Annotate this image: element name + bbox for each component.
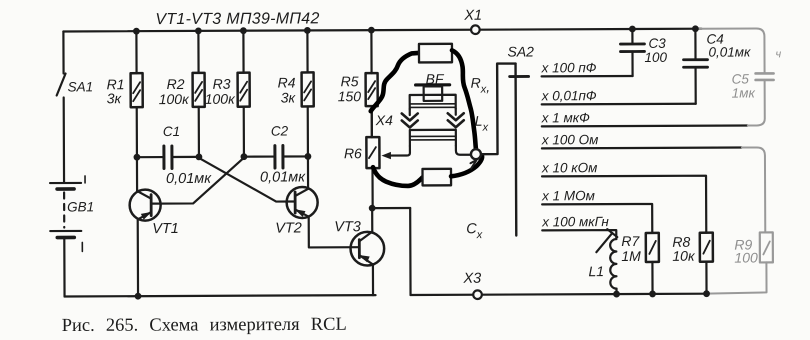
wire bottom right rail [411, 294, 707, 295]
svg-text:Rх,: Rх, [471, 75, 491, 96]
wire bottom left rail [65, 295, 376, 296]
svg-text:х 1 мкФ: х 1 мкФ [541, 110, 590, 125]
svg-text:VT1: VT1 [152, 221, 179, 237]
svg-text:С1: С1 [163, 124, 180, 139]
svg-text:X3: X3 [462, 271, 481, 287]
svg-text:х 0,01пФ: х 0,01пФ [541, 88, 597, 103]
capacitor C3 100 [620, 29, 667, 76]
svg-text:100: 100 [644, 50, 667, 65]
label Cx [466, 221, 483, 241]
wiper arrow into R6 [381, 146, 410, 159]
inductor L1 [588, 229, 617, 294]
wire socket right lead to probe node [456, 146, 471, 155]
probe node circle [471, 149, 481, 159]
svg-text:х 100 Ом: х 100 Ом [541, 132, 599, 147]
svg-text:3к: 3к [281, 89, 297, 105]
wire SA1 to GB1 [63, 97, 66, 182]
labels Rx Lx [471, 75, 491, 134]
resistor R8 10к [672, 233, 713, 294]
wire GB1 to bottom rail [63, 237, 65, 296]
junction dot VT3 collector node [369, 205, 376, 212]
range line x1 мкФ [541, 110, 748, 127]
junction dots bottom rails [135, 290, 710, 299]
svg-text:Рис. 265. Схема измерителя: Рис. 265. Схема измерителя RCL [62, 315, 347, 336]
svg-text:SA2: SA2 [507, 43, 534, 59]
probe cord upper right to node [452, 50, 476, 149]
svg-text:0,01мк: 0,01мк [708, 44, 751, 59]
probe plug 1 [419, 44, 452, 63]
svg-text:С5: С5 [732, 71, 750, 86]
resistor R2 100к [158, 31, 205, 157]
svg-text:R2: R2 [167, 76, 185, 92]
transistor VT2 [275, 156, 359, 247]
svg-text:R7: R7 [621, 233, 640, 249]
svg-text:Cх: Cх [466, 221, 483, 241]
svg-text:X1: X1 [463, 8, 482, 24]
svg-text:1М: 1М [621, 248, 641, 264]
svg-text:х 100 мкГн: х 100 мкГн [541, 214, 609, 229]
wire cross coupling C2 node to VT1 base [151, 158, 244, 204]
wire output column down [409, 208, 412, 295]
wire left column top [62, 31, 64, 73]
svg-text:С2: С2 [271, 124, 289, 139]
terminal X3 [462, 271, 481, 299]
headphone BF body [410, 95, 456, 109]
svg-text:L1: L1 [588, 263, 604, 279]
switch SA2 [481, 43, 535, 235]
svg-text:Lх: Lх [475, 113, 489, 134]
svg-text:ч: ч [775, 48, 781, 60]
wire grey right side to R9 [742, 147, 765, 232]
probe cord upper (Rx) [370, 53, 418, 111]
svg-text:VT1-VT3 МП39-МП42: VT1-VT3 МП39-МП42 [155, 10, 319, 28]
capacitor C2 0,01мк [244, 123, 308, 185]
transistor VT3 [334, 208, 384, 295]
svg-text:R3: R3 [213, 76, 231, 92]
resistor R7 1М [621, 233, 659, 294]
resistor R1 3к [106, 31, 143, 157]
svg-text:R5: R5 [341, 73, 359, 89]
svg-text:С3: С3 [648, 36, 666, 51]
probe cord lower right to node [451, 156, 482, 177]
range line x100 Ом [541, 132, 742, 149]
svg-text:1мк: 1мк [732, 85, 756, 100]
svg-text:10к: 10к [672, 248, 696, 264]
svg-text:х 100 пФ: х 100 пФ [541, 60, 597, 75]
caption [62, 315, 347, 336]
resistor R5 150 [337, 30, 377, 137]
headphone BF top cap [416, 71, 450, 101]
connector X4 pin arrows [375, 109, 464, 128]
probe cord lower (Lx) [373, 167, 423, 186]
range line x10 кОм [541, 160, 706, 234]
junction dots coupling line [134, 153, 312, 161]
svg-text:GB1: GB1 [67, 199, 94, 214]
svg-text:100к: 100к [159, 91, 190, 107]
switch SA1 [57, 73, 94, 95]
transistor VT1 [129, 157, 179, 296]
svg-text:х 1 МОм: х 1 МОм [541, 188, 595, 203]
socket body below X4 [410, 130, 456, 146]
svg-text:100к: 100к [205, 91, 236, 107]
svg-text:150: 150 [338, 88, 362, 104]
svg-text:VT2: VT2 [275, 220, 302, 236]
probe plug 2 [422, 169, 451, 186]
resistor R4 3к [277, 30, 314, 156]
battery GB1 [50, 176, 94, 252]
capacitor C1 0,01мк [137, 124, 212, 187]
range line x1 МОм [541, 188, 652, 233]
resistor R9 100 [706, 232, 773, 293]
svg-text:100: 100 [734, 249, 758, 265]
svg-text:0,01мк: 0,01мк [260, 169, 306, 185]
svg-text:X4: X4 [375, 112, 393, 128]
wire cross coupling C1 node to VT2 base [199, 157, 295, 201]
potentiometer R6 [344, 106, 380, 208]
range line x0,01 пФ [541, 88, 696, 105]
range line x100 пФ [541, 60, 633, 76]
svg-text:3к: 3к [107, 90, 123, 106]
junction dots top rail [133, 25, 699, 34]
svg-text:R6: R6 [344, 145, 362, 161]
resistor R3 100к [204, 31, 250, 157]
svg-text:SA1: SA1 [68, 79, 94, 94]
svg-text:VT3: VT3 [334, 219, 361, 235]
svg-text:R4: R4 [278, 74, 296, 90]
wire grey top right corner through C5 [699, 28, 764, 125]
capacitor C5 1мк [731, 48, 781, 100]
wire top supply rail [63, 29, 701, 32]
svg-text:BF: BF [426, 71, 445, 87]
capacitor C4 0,01мк [683, 28, 751, 103]
svg-text:х 10 кОм: х 10 кОм [541, 160, 597, 175]
wire VT3 collector node to output column [372, 207, 410, 209]
range line x100 мкГн [541, 214, 616, 239]
terminal X1 [463, 8, 482, 34]
svg-text:0,01мк: 0,01мк [166, 171, 212, 187]
title label VT1-VT3 МП39-МП42 [155, 10, 319, 28]
